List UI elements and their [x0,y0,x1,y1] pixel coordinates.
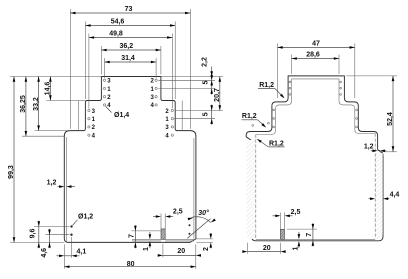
svg-text:1: 1 [293,246,300,250]
dots in right part walls [252,81,358,128]
svg-text:9,6: 9,6 [30,229,37,239]
svg-text:20: 20 [263,245,271,252]
dim 20 right part [242,243,285,254]
dim 2,2 [201,57,213,94]
svg-text:80: 80 [127,261,135,268]
svg-text:4,6: 4,6 [41,248,48,258]
svg-text:1: 1 [143,247,150,251]
svg-text:2: 2 [203,247,210,251]
svg-text:2,5: 2,5 [291,209,301,216]
svg-text:4,4: 4,4 [390,191,400,198]
pin slot right part [280,213,282,230]
svg-text:5: 5 [202,112,209,116]
right housing outline outer [246,76,383,241]
dim 47 [278,40,355,98]
right housing inner wall lines [256,79,292,135]
group2 holes right column [165,109,173,140]
dim 5 lower [202,105,213,125]
dim 54,6 [85,19,175,100]
label R1,2 second [242,113,267,129]
dim 36,25 [20,77,64,137]
dim 4,4 [369,191,400,200]
svg-text:33,2: 33,2 [33,97,40,111]
dim 1 left part [143,232,151,251]
svg-text:Ø1,4: Ø1,4 [114,112,129,119]
group1 holes right column [150,79,157,110]
hatched right wall of right part box [376,153,383,239]
dim 7 left part [129,225,162,248]
dim 31,4 [105,55,157,78]
dim 2,5 right part [273,209,301,217]
dim 1 right part [293,232,301,251]
dim 28,6 [292,52,339,75]
label R1,2 third [256,138,285,148]
svg-text:1,2: 1,2 [364,143,374,150]
dim 20,7 [214,77,221,111]
dim 4,6 [41,229,70,258]
small holes Ø1,2 bottom left [70,225,72,227]
svg-text:Ø1,2: Ø1,2 [78,214,93,221]
dim 2 chamfer [197,233,214,251]
svg-text:1,2: 1,2 [47,180,57,187]
dim 1,2 right part [364,143,386,152]
dim 36,2 [101,43,160,75]
dim 14,6 [45,77,86,101]
svg-text:R1,2: R1,2 [242,113,257,120]
left housing outline [64,77,196,243]
dim 73 [70,6,190,129]
svg-text:5: 5 [202,81,209,85]
30 degree chamfer detail [187,209,216,238]
dim 33,2 [33,77,70,131]
small holes bottom right [189,224,191,226]
svg-text:7: 7 [306,233,313,237]
dim 5 upper [202,75,213,94]
svg-text:30°: 30° [198,209,209,217]
dim 20 left part [158,244,201,257]
svg-text:36,25: 36,25 [20,95,27,113]
label R1,2 first [258,82,286,100]
dim 7 right part [287,223,317,246]
svg-text:4,1: 4,1 [77,248,87,255]
dim 4,1 [57,237,87,269]
svg-text:36,2: 36,2 [119,43,133,50]
svg-text:20,7: 20,7 [214,88,221,102]
dim 9,6 [30,221,70,249]
svg-text:49,8: 49,8 [109,31,123,38]
left housing inner wall lines [78,101,80,131]
pin slot left part [160,214,162,229]
svg-text:7: 7 [129,234,136,238]
dim 1,2 wall left part [47,180,75,188]
svg-text:31,4: 31,4 [121,55,135,62]
dim 80 [64,244,196,268]
svg-text:20: 20 [177,248,185,255]
svg-text:54,6: 54,6 [111,19,125,26]
svg-text:73: 73 [125,6,133,13]
dim 99,3 [8,77,101,243]
label Ø1,4 with leader [106,106,130,119]
svg-text:47: 47 [312,40,320,47]
svg-text:52,4: 52,4 [387,112,394,126]
svg-text:28,6: 28,6 [306,52,320,59]
dim 49,8 [89,31,172,109]
hatched left wall of right part box [247,140,256,239]
group1 holes left column [103,79,111,110]
label Ø1,2 with leader [73,214,94,226]
svg-text:99,3: 99,3 [8,165,15,179]
svg-text:2,5: 2,5 [173,209,183,216]
group2 holes left column [88,109,96,140]
svg-text:14,6: 14,6 [45,82,52,96]
dim 2,5 left part [153,209,183,218]
svg-text:2,2: 2,2 [201,57,208,67]
right-side extension lines of left part [161,76,223,78]
svg-text:R1,2: R1,2 [259,82,274,89]
dim 52,4 [346,76,397,152]
